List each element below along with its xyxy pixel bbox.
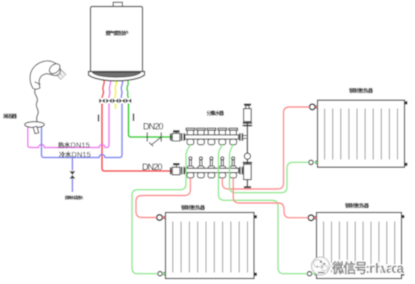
svg-text:冷水DN15: 冷水DN15 [59,150,91,159]
svg-text:热水DN15: 热水DN15 [58,140,90,149]
svg-text:微信号: nhvaca: 微信号: nhvaca [331,260,404,276]
svg-text:钢制散热器: 钢制散热器 [345,202,370,209]
svg-text:燃气壁挂炉: 燃气壁挂炉 [106,29,129,37]
svg-text:钢制散热器: 钢制散热器 [349,88,374,95]
svg-text:DN20: DN20 [142,162,163,172]
svg-text:淋浴器: 淋浴器 [3,112,18,120]
svg-text:分集水器: 分集水器 [207,110,225,117]
svg-text:自来水总进水: 自来水总进水 [65,194,85,201]
svg-text:钢制散热器: 钢制散热器 [181,205,206,212]
svg-text:DN20: DN20 [143,121,164,131]
